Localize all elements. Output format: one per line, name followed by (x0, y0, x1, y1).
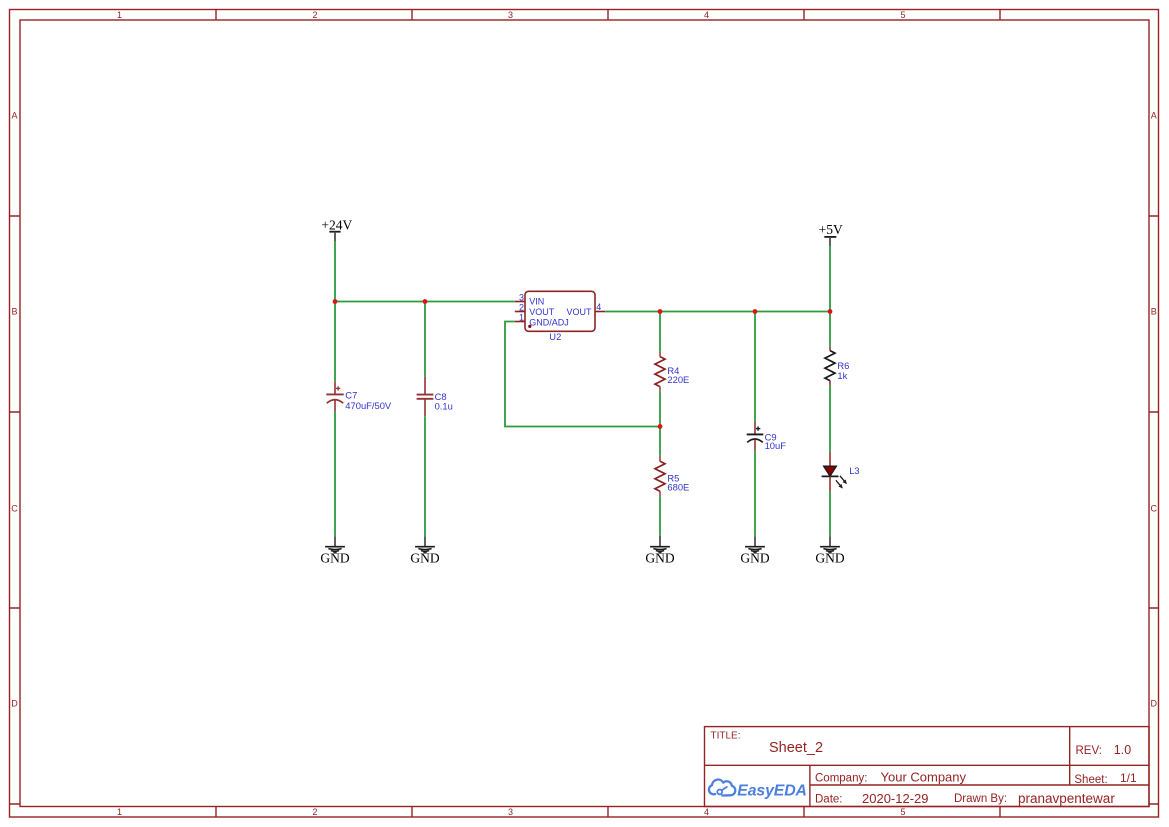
wire R6 top (829, 312, 831, 347)
svg-text:VOUT: VOUT (566, 307, 592, 317)
ruler letters right (1151, 111, 1158, 709)
wire R4 bottom to node (659, 392, 661, 427)
junction at C7 top (333, 299, 338, 304)
label R4 value (667, 365, 689, 385)
wire R6 to LED (829, 386, 831, 452)
ground GND under C8 (410, 536, 439, 565)
title block (705, 727, 1150, 807)
junction at R6 top (828, 309, 833, 314)
svg-text:4: 4 (704, 807, 709, 817)
power flag +24V (321, 218, 352, 242)
svg-text:Your Company: Your Company (881, 769, 967, 784)
ground GND under LED (815, 536, 844, 565)
junction at R4 top (658, 309, 663, 314)
LED light arrow 1 (840, 476, 845, 482)
svg-text:Drawn By:: Drawn By: (954, 793, 1007, 805)
LED L3 (822, 452, 860, 492)
capacitor C9 (747, 422, 764, 451)
svg-text:VOUT: VOUT (529, 307, 555, 317)
LED light arrow 2 (836, 480, 841, 486)
wire U2 pin4 to +5V rail (605, 311, 830, 313)
wire net24 horizontal to U2 pin3 (335, 301, 515, 303)
svg-text:3: 3 (519, 292, 524, 302)
svg-text:+24V: +24V (321, 218, 352, 233)
svg-text:5: 5 (900, 807, 905, 817)
svg-text:REV:: REV: (1076, 745, 1102, 757)
ruler letters left (11, 111, 18, 709)
svg-text:VIN: VIN (529, 297, 544, 307)
wire C8 top branch (424, 302, 426, 377)
wire R5 top (659, 427, 661, 456)
capacitor C8 (417, 377, 434, 416)
ruler numbers bottom (117, 807, 906, 817)
svg-text:1: 1 (519, 312, 524, 322)
ruler numbers top (117, 10, 906, 20)
svg-text:1/1: 1/1 (1120, 771, 1137, 785)
pin 1 stub (515, 321, 525, 323)
svg-text:1.0: 1.0 (1114, 743, 1131, 757)
label C7 value (345, 390, 392, 411)
svg-text:3: 3 (508, 10, 513, 20)
wire net24 vertical from +24V to C7 (334, 241, 336, 381)
svg-text:C: C (11, 504, 18, 514)
power flag +5V (819, 222, 843, 246)
wire R5 bottom to GND (659, 496, 661, 535)
svg-text:Company:: Company: (815, 772, 867, 784)
svg-text:GND: GND (320, 551, 349, 566)
capacitor C7 (326, 381, 343, 411)
svg-text:D: D (11, 699, 18, 709)
label R6 value (837, 360, 849, 381)
ground GND under C7 (320, 536, 349, 565)
svg-text:C: C (1151, 504, 1158, 514)
junction at C9 top (753, 309, 758, 314)
wire +5V to rail (829, 246, 831, 311)
resistor R6 (825, 346, 835, 386)
svg-text:2: 2 (519, 302, 524, 312)
ground GND under R5 (645, 536, 674, 566)
svg-text:TITLE:: TITLE: (711, 730, 741, 741)
svg-text:U2: U2 (549, 331, 561, 342)
wire C9 bottom to GND (754, 451, 756, 537)
svg-text:3: 3 (508, 807, 513, 817)
svg-text:5: 5 (900, 10, 905, 20)
svg-text:2020-12-29: 2020-12-29 (862, 791, 929, 806)
svg-text:pranavpentewar: pranavpentewar (1018, 791, 1115, 806)
wire R4 top (659, 312, 661, 352)
junction at C8 top (423, 299, 428, 304)
svg-text:A: A (1151, 111, 1157, 121)
svg-text:1: 1 (117, 10, 122, 20)
label R5 value (667, 473, 689, 493)
wire U2 pin1 to feedback node (505, 322, 660, 427)
label C9 value (765, 431, 787, 451)
svg-text:Date:: Date: (815, 794, 843, 806)
svg-text:2: 2 (312, 10, 317, 20)
svg-text:B: B (11, 307, 17, 317)
svg-text:1k: 1k (837, 370, 847, 381)
op-amp U2 regulator box (515, 291, 605, 342)
svg-text:10uF: 10uF (765, 440, 787, 451)
pin 3 stub (515, 301, 525, 303)
pin 4 stub (595, 311, 605, 313)
pin 2 stub (515, 311, 525, 313)
svg-text:220E: 220E (667, 374, 689, 385)
junction at feedback node (658, 424, 663, 429)
svg-text:Sheet_2: Sheet_2 (769, 740, 823, 756)
svg-text:470uF/50V: 470uF/50V (345, 400, 392, 411)
svg-text:Sheet:: Sheet: (1074, 774, 1107, 786)
svg-text:GND: GND (740, 551, 769, 566)
label C8 value (435, 391, 453, 412)
svg-text:2: 2 (312, 807, 317, 817)
title block texts (711, 730, 1138, 806)
svg-text:4: 4 (704, 10, 709, 20)
svg-text:1: 1 (117, 807, 122, 817)
ground GND under C9 (740, 536, 769, 565)
wire C9 top (754, 312, 756, 422)
wire C8 bottom to GND (424, 416, 426, 536)
U2 internal dot (528, 325, 531, 328)
svg-text:GND/ADJ: GND/ADJ (529, 317, 569, 327)
svg-text:D: D (1151, 699, 1158, 709)
EasyEDA logo (709, 780, 807, 800)
svg-text:L3: L3 (849, 465, 859, 476)
svg-text:A: A (11, 111, 17, 121)
svg-text:4: 4 (596, 302, 601, 312)
svg-text:EasyEDA: EasyEDA (737, 782, 807, 799)
svg-text:GND: GND (645, 551, 674, 566)
svg-text:B: B (1151, 307, 1157, 317)
wire LED to GND (829, 492, 831, 537)
resistor R4 (655, 351, 665, 392)
svg-text:+5V: +5V (819, 222, 843, 237)
wire C7 bottom to GND (334, 412, 336, 537)
svg-text:680E: 680E (667, 482, 689, 493)
svg-text:GND: GND (815, 551, 844, 566)
resistor R5 (655, 456, 665, 497)
svg-text:GND: GND (410, 551, 439, 566)
svg-text:0.1u: 0.1u (435, 400, 453, 411)
